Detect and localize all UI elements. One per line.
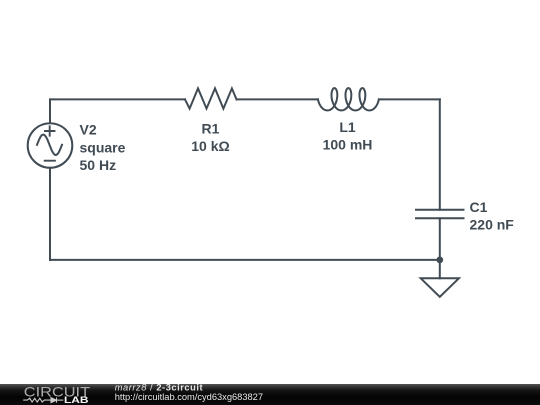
svg-text:C1: C1 xyxy=(470,199,488,215)
ground symbol xyxy=(421,278,459,297)
svg-text:220 nF: 220 nF xyxy=(470,216,515,232)
capacitor C1 top plate xyxy=(416,209,464,211)
inductor L1 xyxy=(318,88,379,110)
V2 minus sign xyxy=(45,160,55,162)
wire resistor-to-inductor xyxy=(237,98,318,100)
logo wire squiggle with resistor and diode xyxy=(23,398,63,403)
svg-text:V2: V2 xyxy=(80,122,97,138)
wire bottom horizontal xyxy=(50,259,440,261)
svg-text:L1: L1 xyxy=(339,119,356,135)
V2 sine symbol xyxy=(37,135,62,155)
svg-text:R1: R1 xyxy=(202,121,220,137)
wire left vertical upper xyxy=(49,99,51,123)
svg-text:LAB: LAB xyxy=(64,395,89,405)
svg-text:http://circuitlab.com/cyd63xg6: http://circuitlab.com/cyd63xg683827 xyxy=(115,392,263,402)
node junction dot xyxy=(436,257,443,264)
V2 plus sign xyxy=(45,126,55,135)
voltage source V2 circle xyxy=(28,123,73,168)
wire left vertical lower xyxy=(49,168,51,260)
svg-text:50 Hz: 50 Hz xyxy=(80,157,117,173)
svg-text:100 mH: 100 mH xyxy=(323,136,373,152)
wire top-left horizontal xyxy=(50,98,185,100)
wire right vertical upper xyxy=(439,99,441,209)
wire right vertical lower xyxy=(439,218,441,278)
svg-text:square: square xyxy=(80,139,126,155)
wire inductor-to-right xyxy=(379,98,440,100)
capacitor C1 bottom plate xyxy=(416,217,464,219)
svg-text:10 kΩ: 10 kΩ xyxy=(191,138,229,154)
resistor R1 xyxy=(185,88,237,108)
